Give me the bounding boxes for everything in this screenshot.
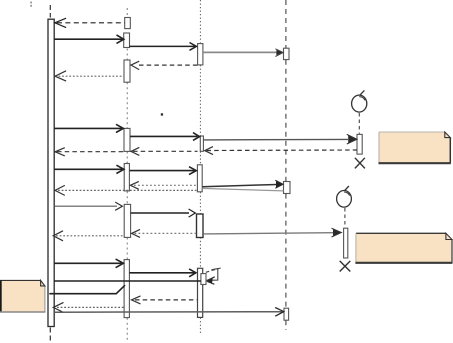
object circle O2	[337, 186, 352, 207]
message M26 dashed return L3 to L2	[132, 296, 198, 304]
lifeline O1 dash	[358, 113, 360, 134]
message M2 solid L1 to L2	[54, 35, 124, 43]
lifeline L2 dashed segments	[126, 8, 128, 341]
message M21 dotted return L2 to L1	[53, 231, 124, 241]
message M24 solid long L1 to L3 nested	[54, 280, 201, 282]
activation L2 R3	[124, 60, 130, 82]
message M3 solid L2 to L3	[130, 43, 197, 51]
activation L2 R4	[124, 128, 130, 151]
lifeline O2 dash	[344, 208, 346, 228]
message M20 dashed return L3 to L2	[132, 229, 197, 237]
activation L3 S1	[198, 44, 203, 65]
note N1 upper-right	[379, 132, 451, 163]
activation L2 R7	[124, 260, 129, 318]
message M12 solid L2 to L3	[130, 167, 197, 175]
lifeline L3 dotted segments	[199, 0, 201, 334]
message M25 bent line L1 to L2	[49, 285, 125, 294]
horn flag shape	[206, 268, 222, 281]
message M10 dashed return O1 to L3	[205, 147, 357, 155]
message M19 gray L3 to O2 bar	[203, 228, 341, 237]
activation L2 R2	[124, 33, 130, 48]
activation bar O2	[344, 228, 348, 258]
activation L2 R5	[124, 164, 129, 191]
tiny colon dots top-left	[30, 2, 32, 7]
activation L4 T2	[284, 182, 291, 194]
message M27 dotted return L2 to L1	[53, 302, 124, 312]
message M15 dashed return L3 to L2	[130, 181, 197, 189]
message M5 dashed return L3 to L2	[131, 61, 198, 69]
lifeline L4 dashed segments	[285, 0, 287, 330]
message M13 solid L3 to L4	[202, 180, 283, 188]
activation L4 T1	[284, 48, 290, 59]
message M9 gray L3 to O1 bar	[204, 134, 357, 144]
message M16 dotted return L2 to L1	[55, 185, 197, 195]
activation L3 S2	[200, 136, 203, 151]
activation L3 S5	[198, 268, 203, 317]
activation bar L1	[48, 19, 54, 326]
message M10c dashed return L2 to L1	[55, 148, 124, 156]
message M10b dashed return L3 to L2	[131, 147, 198, 155]
lifeline L1 head dash	[49, 5, 51, 18]
message M23 solid L2 to L3	[129, 269, 196, 277]
lifeline L1 tail dash	[49, 328, 51, 342]
tiny dot near node (162,114)	[161, 113, 163, 115]
message M22 solid L1 to L2	[54, 259, 123, 268]
message M7 solid L1 to L2	[54, 124, 123, 132]
message M8 solid L2 to L3	[130, 133, 200, 141]
note N3 bottom-left	[0, 280, 45, 312]
object circle O1	[352, 90, 367, 112]
destruction X2	[340, 261, 351, 272]
activation L3 S3	[197, 165, 202, 192]
note N2 lower-right	[355, 233, 452, 262]
activation L2 R6	[124, 204, 130, 237]
activation L3 S4	[197, 214, 204, 238]
message M4 solid L3 to L4	[203, 49, 283, 57]
activation L3 S5b nested	[201, 274, 206, 285]
activation bar O1	[357, 134, 362, 154]
horn arrowhead into nested activation	[206, 277, 215, 285]
activation L4 T3	[284, 308, 289, 320]
activation L2 R1	[125, 18, 131, 29]
message M18 solid L2 to L3	[131, 209, 196, 217]
destruction X1	[355, 158, 365, 169]
message M28 long gray L1 to L4	[54, 308, 284, 317]
message M11 solid L1 to L2	[54, 165, 124, 173]
message M17 solid L1 to L2	[54, 202, 122, 210]
message M1 dashed L2 to L1	[55, 18, 125, 27]
message M6 dotted return L2 to L1	[55, 71, 124, 81]
message M14 gray sloped line L3 to T2	[202, 188, 283, 191]
